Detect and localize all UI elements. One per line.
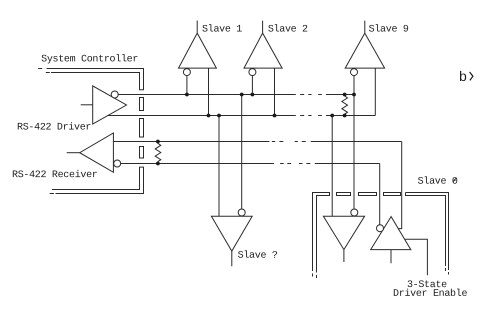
svg-text:Slave ?: Slave ?: [238, 250, 278, 262]
svg-text:Slave 9: Slave 9: [369, 24, 409, 36]
svg-text:Slave 0: Slave 0: [418, 176, 458, 188]
svg-text:Driver Enable: Driver Enable: [393, 288, 467, 300]
svg-text:Slave 2: Slave 2: [268, 24, 308, 36]
svg-text:RS-422 Driver: RS-422 Driver: [17, 122, 91, 134]
svg-text:Slave 1: Slave 1: [202, 23, 242, 35]
svg-text:b: b: [459, 70, 467, 86]
svg-text:RS-422 Receiver: RS-422 Receiver: [12, 169, 98, 181]
svg-text:System Controller: System Controller: [41, 53, 138, 65]
